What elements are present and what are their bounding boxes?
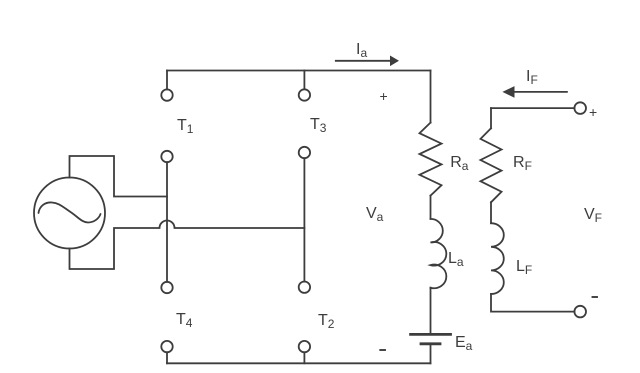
wire source bottom with hop over left leg <box>70 221 305 269</box>
svg-text:Ea: Ea <box>455 334 473 353</box>
wire LF to bottom terminal <box>491 294 574 312</box>
wire armature top drop <box>430 71 432 123</box>
resistor Ra <box>420 123 442 196</box>
terminal minus field <box>574 306 586 318</box>
thyristor T1 terminals <box>161 71 172 163</box>
wire field top drop <box>490 108 492 128</box>
wire source top <box>70 156 168 197</box>
svg-text:Va: Va <box>366 205 384 224</box>
arrow Ia <box>336 56 399 67</box>
label minus field <box>593 296 598 298</box>
thyristor T2 terminals <box>299 282 310 364</box>
svg-text:+: + <box>589 104 597 120</box>
label minus armature <box>380 349 385 351</box>
wire left leg <box>166 162 168 282</box>
svg-text:IF: IF <box>526 68 538 87</box>
wire top bus <box>167 70 431 72</box>
wire RF to LF <box>490 202 492 223</box>
resistor RF <box>481 128 502 202</box>
terminal plus field <box>574 102 586 114</box>
inductor LF <box>491 223 504 294</box>
thyristor T4 terminals <box>161 282 172 364</box>
svg-text:Ra: Ra <box>450 154 469 173</box>
svg-text:RF: RF <box>513 154 532 173</box>
wire La to battery <box>430 288 432 333</box>
inductor La <box>431 219 447 288</box>
svg-text:T4: T4 <box>176 311 193 330</box>
svg-text:LF: LF <box>516 258 532 277</box>
svg-text:T3: T3 <box>310 116 327 135</box>
svg-text:La: La <box>448 250 464 269</box>
thyristor T3 terminals <box>299 71 310 159</box>
svg-text:T2: T2 <box>318 312 335 331</box>
field branch top wire <box>491 107 574 109</box>
arrow IF <box>502 86 567 98</box>
svg-text:+: + <box>380 88 388 104</box>
wire right leg <box>303 158 305 281</box>
battery Ea <box>411 334 451 343</box>
svg-text:T1: T1 <box>177 117 194 136</box>
sine wave inside AC source <box>39 202 101 222</box>
wire Ra to La <box>430 196 432 219</box>
wire bottom bus <box>167 362 431 364</box>
wire battery to bottom bus <box>430 344 432 364</box>
svg-text:VF: VF <box>584 206 602 225</box>
svg-text:Ia: Ia <box>356 41 367 60</box>
AC source circle <box>34 178 105 249</box>
